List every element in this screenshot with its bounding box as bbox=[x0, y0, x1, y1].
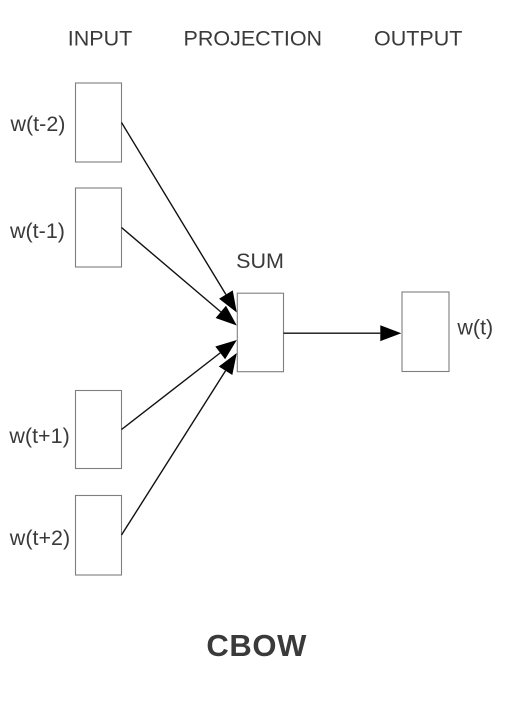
arrow SUM to w(t) bbox=[284, 325, 402, 341]
svg-text:CBOW: CBOW bbox=[206, 628, 307, 663]
svg-text:INPUT: INPUT bbox=[68, 27, 133, 51]
output box w(t) bbox=[402, 292, 449, 372]
arrow w(t+2) to SUM bbox=[122, 353, 237, 535]
input box w(t+2) bbox=[76, 496, 122, 576]
projection box SUM bbox=[237, 293, 283, 372]
svg-text:PROJECTION: PROJECTION bbox=[184, 27, 323, 51]
svg-text:w(t+2): w(t+2) bbox=[9, 526, 70, 550]
svg-text:SUM: SUM bbox=[236, 249, 284, 273]
svg-text:w(t): w(t) bbox=[456, 316, 493, 340]
arrow w(t+1) to SUM bbox=[122, 340, 237, 430]
input box w(t-2) bbox=[76, 83, 122, 162]
arrow w(t-1) to SUM bbox=[122, 228, 237, 326]
svg-text:w(t-1): w(t-1) bbox=[9, 219, 65, 243]
input box w(t-1) bbox=[76, 188, 122, 267]
input box w(t+1) bbox=[76, 391, 122, 469]
svg-text:OUTPUT: OUTPUT bbox=[374, 27, 462, 51]
svg-text:w(t+1): w(t+1) bbox=[8, 424, 69, 448]
svg-text:w(t-2): w(t-2) bbox=[10, 112, 66, 136]
arrow w(t-2) to SUM bbox=[122, 123, 237, 313]
